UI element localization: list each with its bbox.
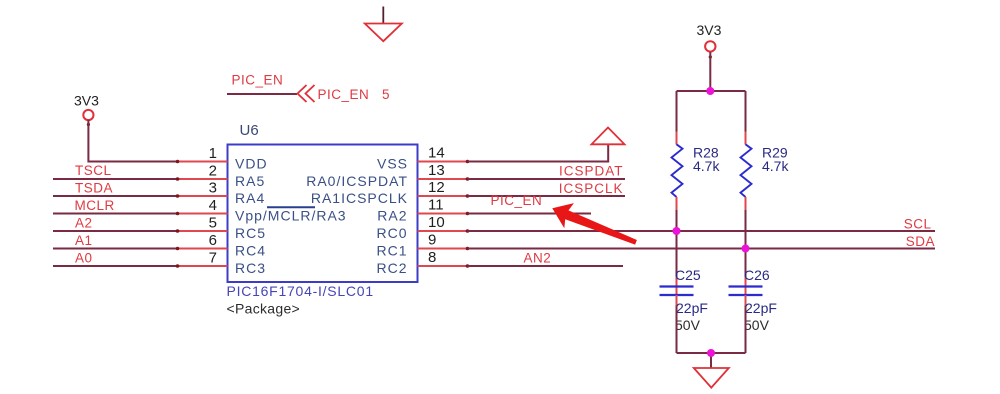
wire A0 <box>53 265 178 267</box>
pin end dots right <box>466 160 470 268</box>
pin 7 stub <box>178 265 228 267</box>
svg-text:TSCL: TSCL <box>75 163 112 178</box>
wire SDA <box>468 248 936 250</box>
svg-text:VDD: VDD <box>235 156 268 172</box>
svg-text:ICSPCLK: ICSPCLK <box>559 181 624 196</box>
pin 3 stub <box>178 195 228 197</box>
pin end dot 3V3 right <box>709 55 712 58</box>
svg-text:50V: 50V <box>744 317 770 333</box>
svg-text:8: 8 <box>428 249 436 266</box>
svg-text:A0: A0 <box>75 251 93 266</box>
svg-text:SDA: SDA <box>906 234 935 249</box>
svg-text:4.7k: 4.7k <box>762 158 789 174</box>
pin 8 stub <box>418 265 468 267</box>
wire bottom rail <box>677 352 746 354</box>
wire SDA to C26 <box>745 249 747 277</box>
wire 3V3 down <box>709 52 711 91</box>
svg-text:AN2: AN2 <box>524 251 552 266</box>
overline MCLR <box>267 206 315 208</box>
pin 1 stub <box>178 161 228 163</box>
svg-text:4.7k: 4.7k <box>693 158 720 174</box>
svg-text:<Package>: <Package> <box>227 301 301 317</box>
wire ICSPCLK <box>468 195 626 197</box>
power symbol arrow top <box>592 128 625 145</box>
pin 9 stub <box>418 248 468 250</box>
capacitor C26 <box>729 267 777 333</box>
wire top rail <box>677 90 746 92</box>
wire ICSPDAT <box>468 178 626 180</box>
svg-text:50V: 50V <box>675 317 701 333</box>
svg-text:PIC_EN: PIC_EN <box>491 193 543 208</box>
svg-text:C25: C25 <box>675 267 701 283</box>
junction top rail <box>706 87 714 95</box>
pin 12 stub <box>418 195 468 197</box>
svg-text:U6: U6 <box>240 122 259 139</box>
svg-text:13: 13 <box>428 162 445 179</box>
wire 3V3 to pin1 <box>88 120 177 162</box>
svg-text:RC4: RC4 <box>235 243 266 259</box>
svg-text:ICSPDAT: ICSPDAT <box>559 164 624 179</box>
capacitor C25 <box>660 267 708 333</box>
svg-text:RC5: RC5 <box>235 225 266 241</box>
chip U6 body <box>228 145 418 283</box>
ground GND bottom <box>694 368 729 388</box>
wire MCLR <box>53 213 178 215</box>
pin 14 stub <box>418 161 468 163</box>
wire SCL to C25 <box>676 231 678 277</box>
wire rail to R28 <box>676 91 678 132</box>
junction SDA <box>742 245 750 253</box>
wire C26 down <box>745 306 747 354</box>
svg-text:11: 11 <box>428 197 444 214</box>
svg-text:9: 9 <box>428 232 436 249</box>
power port 3V3 right <box>697 22 722 52</box>
wire A2 <box>53 230 178 232</box>
svg-text:PIC_EN: PIC_EN <box>232 73 284 88</box>
svg-text:4: 4 <box>209 197 217 214</box>
pin 13 stub <box>418 178 468 180</box>
wire TSDA <box>53 195 178 197</box>
pin end dots left <box>176 160 180 268</box>
wire rail to R29 <box>745 91 747 132</box>
svg-text:7: 7 <box>209 250 217 267</box>
svg-text:RA0/ICSPDAT: RA0/ICSPDAT <box>306 173 408 189</box>
wire C25 down <box>676 306 678 354</box>
wire R29 to SDA <box>745 210 747 249</box>
svg-text:10: 10 <box>428 214 445 231</box>
svg-text:5: 5 <box>382 87 390 102</box>
wire A1 <box>53 248 178 250</box>
annotation arrow <box>552 203 637 245</box>
junction bottom rail <box>707 349 715 357</box>
svg-text:22pF: 22pF <box>676 300 708 316</box>
svg-text:Vpp/MCLR/RA3: Vpp/MCLR/RA3 <box>235 208 347 224</box>
pin 11 stub <box>418 213 468 215</box>
wire PIC_EN <box>227 93 297 95</box>
wire TSCL <box>53 178 178 180</box>
svg-text:C26: C26 <box>744 267 770 283</box>
wire PIC_EN pin11 <box>468 213 592 215</box>
svg-text:2: 2 <box>209 163 217 180</box>
svg-text:6: 6 <box>209 232 217 249</box>
svg-text:14: 14 <box>428 145 445 162</box>
svg-text:12: 12 <box>428 179 445 196</box>
svg-text:TSDA: TSDA <box>75 181 113 196</box>
svg-text:RA1ICSPCLK: RA1ICSPCLK <box>311 190 408 206</box>
svg-text:PIC_EN: PIC_EN <box>318 87 370 102</box>
svg-text:RC0: RC0 <box>376 225 407 241</box>
svg-text:A1: A1 <box>75 233 93 248</box>
svg-text:5: 5 <box>209 215 217 232</box>
port chevron PIC_EN <box>298 85 315 102</box>
svg-text:A2: A2 <box>75 216 93 231</box>
wire AN2 <box>468 265 624 267</box>
junction SCL <box>673 227 681 235</box>
svg-text:VSS: VSS <box>377 156 408 172</box>
svg-text:PIC16F1704-I/SLC01: PIC16F1704-I/SLC01 <box>227 283 374 299</box>
svg-text:RA2: RA2 <box>377 208 407 224</box>
wire to ground <box>710 353 712 368</box>
pin 10 stub <box>418 230 468 232</box>
wire R28 to SCL <box>676 210 678 231</box>
pin 6 stub <box>178 248 228 250</box>
resistor R28 <box>672 132 721 211</box>
resistor R29 <box>741 132 790 211</box>
wire VSS to power <box>468 144 609 161</box>
svg-text:MCLR: MCLR <box>75 198 115 213</box>
svg-text:22pF: 22pF <box>745 300 777 316</box>
pin 2 stub <box>178 178 228 180</box>
svg-text:3V3: 3V3 <box>74 93 99 109</box>
pin 5 stub <box>178 230 228 232</box>
power port 3V3 left <box>74 93 99 121</box>
svg-text:RC1: RC1 <box>376 243 407 259</box>
svg-text:RA4: RA4 <box>235 190 265 206</box>
svg-text:RA5: RA5 <box>235 173 265 189</box>
svg-text:RC2: RC2 <box>376 260 407 276</box>
svg-text:SCL: SCL <box>904 217 932 232</box>
svg-text:3: 3 <box>209 180 217 197</box>
wire SCL <box>468 230 936 232</box>
ground GND top <box>365 7 402 42</box>
svg-text:3V3: 3V3 <box>697 22 722 38</box>
svg-text:RC3: RC3 <box>235 260 266 276</box>
svg-text:1: 1 <box>209 145 217 162</box>
pin 4 stub <box>178 213 228 215</box>
pin end dot 3V3 left <box>87 123 90 126</box>
